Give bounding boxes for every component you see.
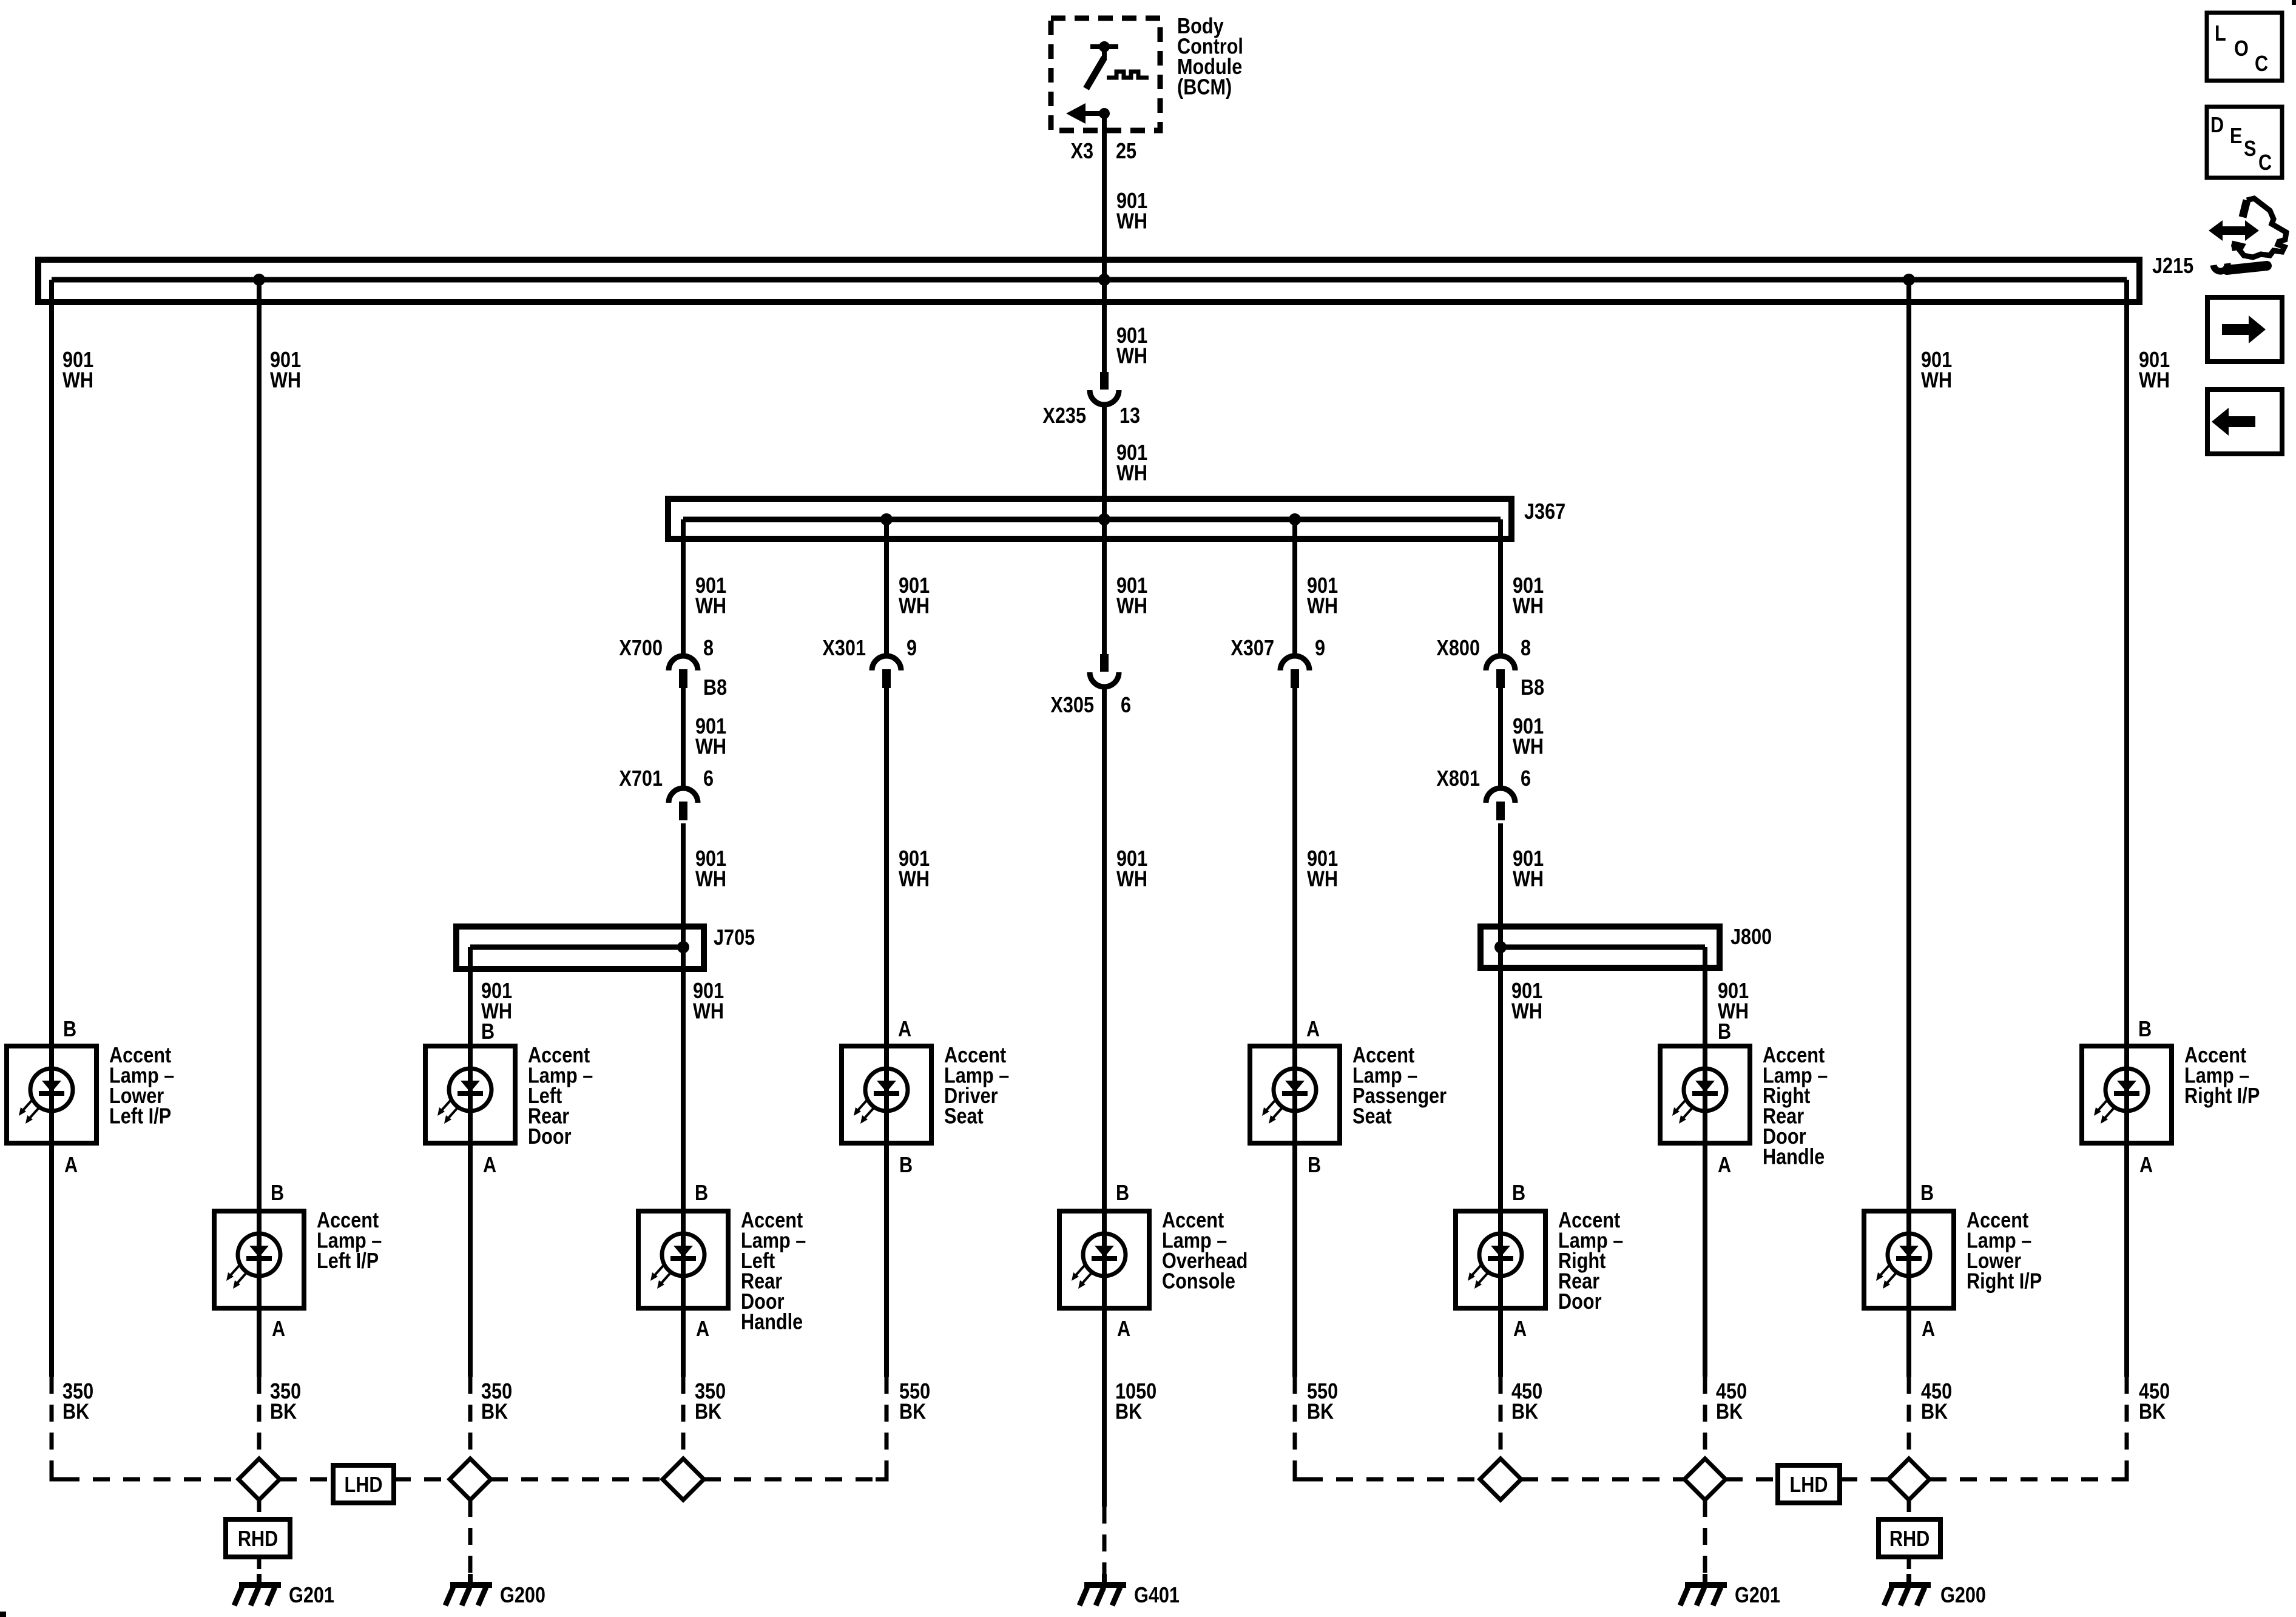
svg-text:C: C	[2255, 52, 2268, 76]
svg-text:Seat: Seat	[944, 1104, 984, 1129]
svg-text:BK: BK	[1921, 1399, 1948, 1424]
connector X700 pin 8	[669, 656, 698, 670]
svg-text:LHD: LHD	[1790, 1473, 1828, 1497]
svg-text:8: 8	[703, 636, 714, 661]
RHD option box right	[1879, 1519, 1940, 1557]
svg-text:Seat: Seat	[1352, 1104, 1392, 1129]
svg-text:BK: BK	[695, 1399, 722, 1424]
BCM internal driver switch symbol	[1090, 44, 1118, 49]
svg-text:J705: J705	[714, 925, 755, 950]
icon box LOC	[2207, 13, 2282, 81]
wire w5: X301 through lamp 5	[884, 688, 889, 1377]
svg-text:X307: X307	[1231, 636, 1274, 661]
lamp 4 Accent Lamp - Left Rear Door Handle	[638, 1211, 728, 1308]
svg-text:B: B	[695, 1181, 708, 1206]
wire w6: lamp 6 down to ground lead	[1102, 1311, 1107, 1507]
svg-text:B: B	[1718, 1019, 1731, 1044]
svg-text:C: C	[2258, 150, 2272, 175]
splice pack J800	[1481, 927, 1720, 968]
corner w5	[876, 1468, 886, 1479]
wire w4: J367 to X700	[681, 519, 686, 654]
corner w1	[52, 1468, 62, 1479]
wire w8: X801 through J800 to lamp 8	[1498, 823, 1503, 1377]
ground G200 right	[1906, 1574, 1911, 1585]
svg-text:B: B	[1308, 1153, 1321, 1178]
svg-text:A: A	[483, 1153, 496, 1178]
wire w4: X700 to X701	[681, 688, 686, 786]
svg-text:G201: G201	[289, 1583, 334, 1608]
dashed ground bus right	[1306, 1477, 1480, 1482]
svg-text:A: A	[272, 1317, 285, 1342]
svg-text:Right I/P: Right I/P	[2184, 1084, 2260, 1109]
svg-text:A: A	[64, 1153, 78, 1178]
splice pack J215	[38, 260, 2139, 302]
splice pack J705	[456, 927, 704, 969]
svg-text:WH: WH	[695, 593, 726, 618]
svg-text:A: A	[898, 1017, 911, 1042]
svg-text:O: O	[2234, 36, 2249, 61]
lamp 9 Accent Lamp - Right Rear Door Handle	[1660, 1046, 1750, 1143]
dashed drop w10 diamond to RHD	[1907, 1500, 1911, 1519]
svg-text:B: B	[1512, 1181, 1525, 1206]
svg-text:Door: Door	[528, 1124, 571, 1149]
svg-text:RHD: RHD	[1889, 1527, 1930, 1551]
svg-text:Right I/P: Right I/P	[1967, 1269, 2042, 1294]
dashed wire w6 to G401	[1102, 1507, 1107, 1576]
svg-text:WH: WH	[1307, 866, 1338, 891]
svg-text:BK: BK	[270, 1399, 297, 1424]
svg-text:6: 6	[1121, 693, 1131, 718]
svg-text:J367: J367	[1524, 499, 1565, 524]
svg-text:WH: WH	[2139, 368, 2170, 393]
connector X801 pin 6	[1486, 788, 1515, 803]
svg-text:G401: G401	[1134, 1583, 1180, 1608]
svg-text:BK: BK	[62, 1399, 90, 1424]
lamp 1 Accent Lamp - Lower Left I/P	[7, 1046, 96, 1143]
svg-text:RHD: RHD	[238, 1527, 278, 1551]
Body Control Module (BCM) dashed box	[1051, 18, 1160, 130]
svg-text:WH: WH	[1921, 368, 1952, 393]
wire w7: X307 through lamp 7	[1292, 688, 1297, 1377]
svg-text:BK: BK	[1307, 1399, 1334, 1424]
wire w4: X701 through J705 to lamp 4	[681, 823, 686, 1377]
svg-text:Left I/P: Left I/P	[109, 1104, 171, 1129]
connector X301 pin 9	[872, 656, 901, 670]
svg-text:WH: WH	[1116, 866, 1147, 891]
ground G201 left	[257, 1574, 262, 1585]
svg-text:X701: X701	[619, 766, 663, 791]
svg-text:G200: G200	[1940, 1583, 1986, 1608]
svg-text:WH: WH	[270, 368, 301, 393]
svg-text:LHD: LHD	[345, 1473, 383, 1497]
dashed drop w2 diamond to RHD	[257, 1500, 262, 1519]
wire: BCM pin 25 down to J215 and X235	[1102, 113, 1107, 372]
svg-text:X800: X800	[1436, 636, 1480, 661]
dashed drop RHD to G201	[257, 1557, 262, 1578]
svg-text:B8: B8	[1521, 675, 1544, 700]
junction diamond w3	[450, 1459, 491, 1500]
lamp 8 Accent Lamp - Right Rear Door	[1456, 1211, 1545, 1308]
svg-text:A: A	[2139, 1153, 2153, 1178]
svg-text:X700: X700	[619, 636, 663, 661]
wire w2: J215 to lamp 2 and below	[257, 280, 262, 1377]
svg-text:B: B	[1116, 1181, 1129, 1206]
corner w11	[2116, 1468, 2127, 1479]
ground G200 left	[468, 1574, 473, 1585]
svg-text:A: A	[1718, 1153, 1731, 1178]
svg-text:WH: WH	[899, 593, 930, 618]
svg-text:A: A	[696, 1317, 709, 1342]
junction diamond w2	[238, 1459, 280, 1500]
corner w7	[1295, 1468, 1306, 1479]
lamp 6 Accent Lamp - Overhead Console	[1059, 1211, 1149, 1308]
wire w9: J800 to lamp 9	[1703, 947, 1707, 1377]
svg-text:WH: WH	[62, 368, 93, 393]
svg-text:X305: X305	[1050, 693, 1094, 718]
icon: hand with double arrow and wrench	[2209, 220, 2259, 241]
lamp 3 Accent Lamp - Left Rear Door	[425, 1046, 515, 1143]
connector X701 pin 6	[669, 788, 698, 803]
wire: X235 to X305	[1102, 407, 1107, 654]
wire w5: J367 to X301	[884, 519, 889, 654]
icon box right arrow	[2207, 297, 2282, 362]
svg-text:BK: BK	[2139, 1399, 2166, 1424]
icon box DESC	[2207, 107, 2282, 178]
svg-text:BK: BK	[1511, 1399, 1539, 1424]
svg-text:(BCM): (BCM)	[1177, 75, 1232, 100]
svg-text:WH: WH	[1513, 734, 1544, 759]
svg-text:B: B	[63, 1017, 76, 1042]
svg-text:25: 25	[1116, 139, 1136, 164]
lamp 10 Accent Lamp - Lower Right I/P	[1864, 1211, 1954, 1308]
svg-text:BK: BK	[899, 1399, 927, 1424]
dashed ground wires (vertical drops)	[50, 1377, 54, 1468]
svg-text:BK: BK	[1115, 1399, 1143, 1424]
svg-text:X801: X801	[1436, 766, 1480, 791]
svg-text:E: E	[2230, 124, 2242, 149]
LHD option box right	[1778, 1465, 1840, 1503]
dashed drop w3 diamond to G200	[468, 1500, 473, 1576]
connector X305 pin 6	[1100, 654, 1109, 672]
ground G201 right	[1703, 1574, 1707, 1585]
svg-text:B8: B8	[703, 675, 727, 700]
svg-text:WH: WH	[693, 999, 724, 1024]
LHD option box left	[333, 1465, 394, 1503]
junction diamond w4	[663, 1459, 704, 1500]
wire: X305 down through lamp 6	[1102, 689, 1107, 1311]
junction diamond w10	[1888, 1459, 1930, 1500]
svg-text:A: A	[1306, 1017, 1320, 1042]
svg-text:6: 6	[703, 766, 714, 791]
svg-text:WH: WH	[1116, 461, 1147, 485]
svg-text:A: A	[1922, 1317, 1935, 1342]
connector X235 pin 13	[1100, 372, 1109, 390]
svg-text:J215: J215	[2152, 254, 2193, 279]
svg-text:Handle: Handle	[741, 1309, 803, 1334]
svg-text:BK: BK	[1716, 1399, 1743, 1424]
svg-text:Left I/P: Left I/P	[317, 1249, 379, 1274]
svg-text:B: B	[899, 1153, 913, 1178]
svg-text:BK: BK	[481, 1399, 508, 1424]
dashed drop w9 diamond to G201	[1703, 1500, 1707, 1576]
svg-text:A: A	[1117, 1317, 1130, 1342]
svg-text:WH: WH	[695, 734, 726, 759]
svg-text:WH: WH	[1513, 593, 1544, 618]
RHD option box left	[226, 1519, 290, 1557]
svg-text:L: L	[2215, 21, 2226, 46]
BCM output arrow	[1071, 111, 1104, 116]
svg-text:WH: WH	[1116, 343, 1147, 368]
svg-text:B: B	[1920, 1181, 1934, 1206]
svg-text:WH: WH	[1511, 999, 1542, 1024]
wire w1: J215 to lamp 1 and below	[49, 280, 54, 1377]
lamp 5 Accent Lamp - Driver Seat	[842, 1046, 931, 1143]
svg-text:Console: Console	[1162, 1269, 1235, 1294]
wire w10: J215 to lamp 10	[1906, 280, 1911, 1377]
svg-text:WH: WH	[695, 866, 726, 891]
svg-text:9: 9	[1315, 636, 1325, 661]
dashed ground bus left	[62, 1477, 238, 1482]
svg-text:D: D	[2210, 113, 2224, 138]
page corner marks	[0, 1612, 6, 1617]
svg-text:J800: J800	[1730, 925, 1772, 950]
svg-text:Handle: Handle	[1763, 1144, 1825, 1169]
svg-text:13: 13	[1119, 403, 1140, 428]
svg-text:6: 6	[1521, 766, 1531, 791]
lamp 2 Accent Lamp - Left I/P	[214, 1211, 304, 1308]
svg-text:B: B	[481, 1019, 495, 1044]
junction diamond w9	[1684, 1459, 1726, 1500]
lamp 11 Accent Lamp - Right I/P	[2082, 1046, 2172, 1143]
splice pack J367	[668, 499, 1511, 539]
wire w7: J367 to X307	[1292, 519, 1297, 654]
svg-text:8: 8	[1521, 636, 1531, 661]
connector X800 pin 8	[1486, 656, 1515, 670]
svg-text:A: A	[1513, 1317, 1527, 1342]
svg-text:X235: X235	[1042, 403, 1086, 428]
svg-text:G201: G201	[1735, 1583, 1780, 1608]
wire w11: J215 to lamp 11	[2124, 280, 2129, 1377]
wire w3: J705 to lamp 3 and below	[468, 947, 473, 1377]
svg-text:WH: WH	[1116, 593, 1147, 618]
junction diamond w8	[1480, 1459, 1521, 1500]
wire w8: J367 to X800	[1498, 519, 1503, 654]
icon box left arrow	[2207, 390, 2282, 454]
wire w8: X800 to X801	[1498, 688, 1503, 786]
lamp 7 Accent Lamp - Passenger Seat	[1250, 1046, 1340, 1143]
ground G401	[1102, 1574, 1107, 1585]
svg-text:9: 9	[907, 636, 917, 661]
svg-text:X301: X301	[822, 636, 866, 661]
svg-text:WH: WH	[1513, 866, 1544, 891]
svg-text:WH: WH	[1307, 593, 1338, 618]
svg-text:B: B	[271, 1181, 284, 1206]
dashed drop RHD to G200 right	[1907, 1557, 1911, 1578]
svg-text:S: S	[2244, 137, 2256, 161]
svg-text:B: B	[2138, 1017, 2152, 1042]
svg-text:X3: X3	[1071, 139, 1093, 164]
connector X307 pin 9	[1280, 656, 1309, 670]
svg-text:WH: WH	[899, 866, 930, 891]
svg-text:Door: Door	[1558, 1289, 1601, 1314]
svg-text:WH: WH	[1116, 209, 1147, 234]
svg-text:G200: G200	[500, 1583, 545, 1608]
